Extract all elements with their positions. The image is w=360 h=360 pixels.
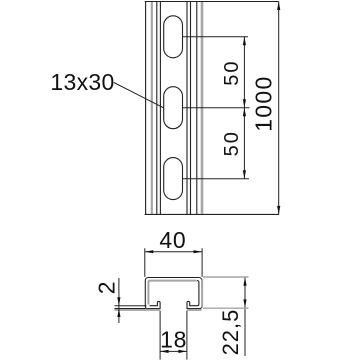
wire: 22,5 extension line top (gray) — [203, 276, 249, 278]
wire: rail fold edge (opening left) — [159, 2, 161, 215]
wire: 18 dim extension line right — [186, 311, 188, 360]
arrow: 50 dim middle (up) — [243, 108, 246, 117]
svg-text:50: 50 — [221, 59, 243, 85]
arrow: 40 dim left — [145, 250, 154, 253]
arrow: 22,5 dim top (up) — [243, 277, 246, 286]
wire: rail top edge / extension line to 1000 dim — [145, 1, 279, 3]
wire: dimension line 1000 — [278, 2, 280, 215]
arrow: 18 dim left — [160, 350, 169, 353]
svg-text:50: 50 — [221, 130, 243, 156]
wire: rail bottom edge / extension line to 1000 dim — [145, 213, 279, 215]
wire: 22,5 dimension line vertical — [244, 277, 246, 356]
wire: 40 dimension line — [145, 251, 202, 253]
profile outer contour: left wall and top face — [145, 278, 202, 309]
wire: center line slot 2 to dimension — [183, 107, 250, 109]
arrow: 2 dim upper (down) — [117, 297, 120, 306]
arrow: 1000 dim top (up) — [277, 2, 280, 11]
wire: leader line from 13x30 label to slot 2 — [114, 83, 164, 108]
wire: 40 dim extension line right — [201, 248, 203, 276]
arrow: 1000 dim bottom (down) — [277, 206, 280, 215]
wire: gray shading right outer wall — [201, 280, 203, 308]
arrow: 2 dim lower (up) — [117, 309, 120, 318]
arrow: 50 dim middle (down) — [243, 99, 246, 108]
wire: gray shading line left — [151, 2, 153, 214]
wire: rail fold edge (right bead outer) — [190, 2, 192, 215]
wire: rail fold edge (inner right wall) — [196, 2, 198, 215]
wire: 2 dim extension line bottom — [115, 308, 146, 310]
arrow: 50 dim bottom (down) — [243, 170, 246, 179]
wire: rail left outer edge — [145, 2, 147, 215]
arrow: 50 dim top (up) — [243, 37, 246, 46]
wire: rail fold edge (left bead outer) — [156, 2, 158, 215]
wire: gray shading inner left wall and inner top — [148, 281, 196, 305]
wire: 40 dim extension line left — [144, 248, 146, 276]
wire: gray shading under right lip — [187, 309, 201, 311]
svg-text:13x30: 13x30 — [50, 69, 114, 95]
slot hole 3 (13x30) — [164, 158, 183, 200]
svg-text:22,5: 22,5 — [218, 309, 243, 356]
wire: dimension line 50/50 — [243, 37, 245, 179]
slot hole 1 (13x30) — [164, 16, 183, 58]
profile left lip and left bead — [148, 301, 160, 308]
wire: center line slot 1 to dimension — [183, 36, 249, 38]
svg-text:40: 40 — [159, 227, 186, 253]
wire: 18 dim extension line left — [159, 311, 161, 360]
arrow: 40 dim right — [194, 250, 203, 253]
arrow: 22,5 dim bottom (down) — [243, 299, 246, 308]
svg-text:1000: 1000 — [251, 75, 277, 131]
wire: gray shading under lips and 2-dim extension — [115, 309, 160, 311]
profile right lip, right bead and inner right wall — [187, 281, 202, 309]
wire: rail fold edge (opening right) — [186, 2, 188, 215]
wire: 2 dimension line vertical — [118, 278, 120, 323]
wire: gray shading line right outer edge — [201, 2, 204, 214]
wire: 18 dimension line — [160, 350, 187, 352]
arrow: 18 dim right — [178, 350, 187, 353]
svg-text:18: 18 — [160, 326, 187, 352]
wire: center line slot 3 to dimension — [183, 178, 250, 180]
svg-text:2: 2 — [94, 281, 120, 294]
wire: 22,5 extension line bottom (gray) — [203, 307, 249, 309]
wire: 2 dim extension line top — [115, 305, 147, 307]
slot hole 2 (13x30) — [164, 87, 183, 129]
